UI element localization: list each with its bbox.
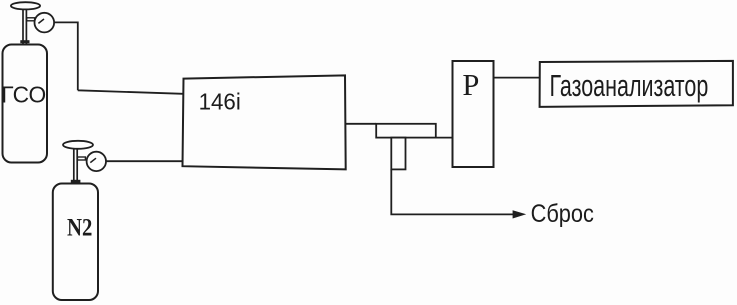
valve handwheel (N2): [63, 141, 93, 149]
wire ГСО gauge to 146i: [54, 22, 183, 93]
tee drop fitting: [391, 138, 405, 170]
valve stem (ГСО): [23, 9, 26, 44]
rotameter box Р: [453, 61, 494, 167]
wire 146i to tee flange: [346, 123, 377, 125]
valve stem (N2): [74, 149, 77, 184]
gauge needle (ГСО): [38, 19, 44, 23]
gauge connector (N2): [77, 157, 85, 160]
tee flange: [376, 124, 436, 138]
vent line to Сброс: [391, 169, 513, 214]
gauge connector (ГСО): [27, 18, 35, 21]
valve crossbar (N2): [71, 180, 81, 183]
svg-text:ГСО: ГСО: [1, 81, 46, 107]
label 146i: [199, 88, 241, 115]
gas cylinder N2 body: [53, 184, 98, 301]
analyzer box 146i: [183, 75, 346, 169]
svg-text:N2: N2: [67, 214, 92, 241]
label Р: [462, 68, 479, 102]
svg-text:Р: Р: [462, 68, 479, 102]
svg-text:Сброс: Сброс: [531, 200, 595, 228]
vent arrowhead: [513, 210, 527, 218]
label ГСО: [1, 81, 46, 107]
valve handwheel (ГСО): [11, 2, 40, 9]
label Газоанализатор: [550, 68, 709, 103]
pressure gauge (ГСО): [35, 13, 55, 33]
wire P to gas analyzer: [494, 77, 541, 79]
pressure gauge (N2): [87, 152, 106, 171]
label N2: [67, 214, 92, 241]
label Сброс: [531, 200, 595, 228]
wire tee to P box: [436, 137, 453, 139]
gas analyzer box: [540, 61, 733, 107]
gauge needle (N2): [90, 158, 96, 162]
valve crossbar (ГСО): [20, 40, 29, 43]
wire N2 gauge to 146i: [106, 160, 183, 162]
gas cylinder ГСО body: [3, 45, 48, 163]
svg-text:146i: 146i: [199, 88, 241, 115]
svg-text:Газоанализатор: Газоанализатор: [550, 68, 709, 103]
